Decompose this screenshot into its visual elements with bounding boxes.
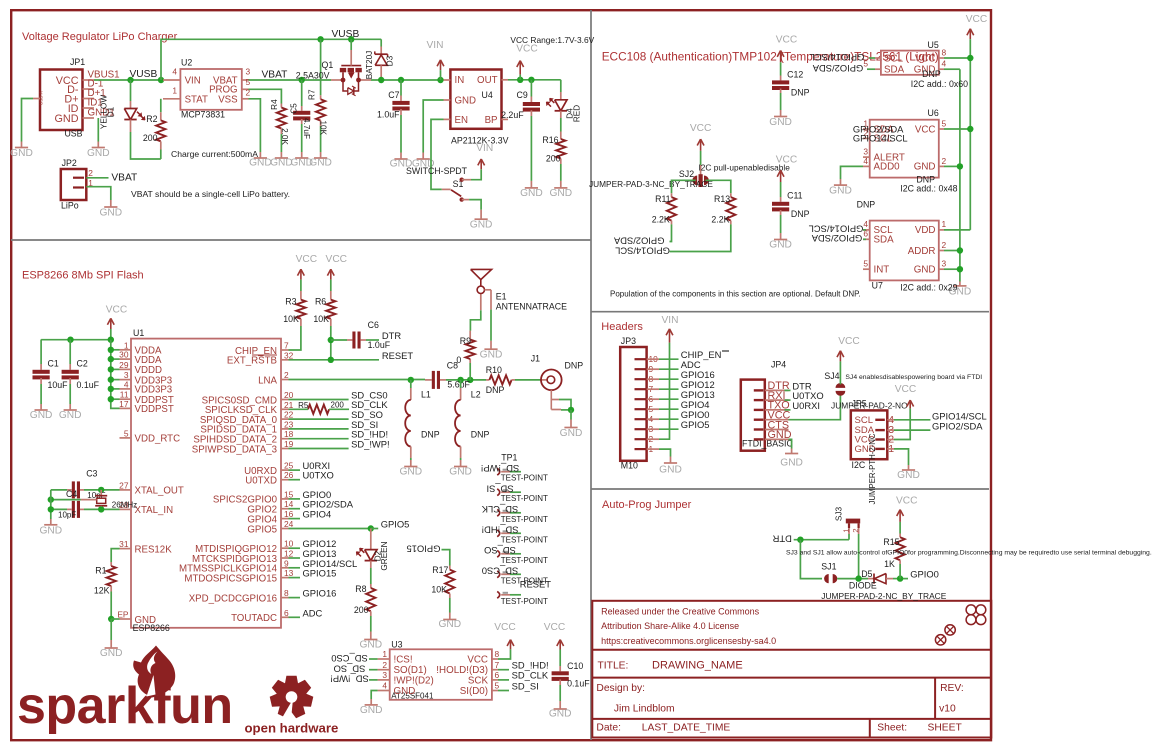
svg-text:GPIO4: GPIO4 bbox=[303, 509, 332, 520]
svg-text:TOUTADC: TOUTADC bbox=[231, 613, 277, 624]
svg-text:GPIO15: GPIO15 bbox=[407, 543, 441, 554]
test point SD_CLK bbox=[497, 509, 500, 516]
svg-text:SDA: SDA bbox=[884, 65, 905, 76]
svg-text:RES12K: RES12K bbox=[135, 544, 173, 555]
ground below R7 bbox=[314, 157, 327, 159]
svg-text:J1: J1 bbox=[531, 354, 540, 364]
test point SD_!WP! bbox=[497, 468, 500, 475]
inductor L1 DNP bbox=[410, 380, 412, 388]
svg-text:0: 0 bbox=[456, 355, 461, 365]
svg-text:VCC: VCC bbox=[915, 53, 936, 64]
svg-text:DTR: DTR bbox=[772, 534, 791, 545]
svg-text:VIN: VIN bbox=[476, 143, 493, 154]
resistor R10 DNP bbox=[486, 379, 489, 381]
svg-text:D5: D5 bbox=[861, 569, 872, 579]
svg-text:VCC: VCC bbox=[296, 254, 318, 265]
JP3 pin 5 bbox=[635, 408, 647, 410]
diode D3 BAT20J schottky bbox=[380, 39, 382, 46]
svg-text:13: 13 bbox=[284, 568, 294, 578]
svg-text:VCC: VCC bbox=[494, 622, 516, 633]
wire crystal caps to ground bus bbox=[50, 490, 52, 519]
svg-text:XPD_DCDCGPIO16: XPD_DCDCGPIO16 bbox=[189, 593, 277, 604]
svg-text:GND: GND bbox=[829, 185, 852, 196]
svg-text:VDD_RTC: VDD_RTC bbox=[135, 434, 181, 445]
ground below crystal caps bbox=[44, 524, 57, 526]
junction at D1 branch bbox=[127, 77, 133, 83]
svg-text:10K: 10K bbox=[318, 121, 327, 136]
svg-text:GND: GND bbox=[135, 615, 157, 626]
svg-text:14: 14 bbox=[284, 499, 294, 509]
svg-text:5.6pF: 5.6pF bbox=[447, 379, 470, 389]
svg-text:GND: GND bbox=[59, 410, 82, 421]
svg-text:2: 2 bbox=[942, 240, 947, 250]
svg-text:C4: C4 bbox=[66, 489, 77, 499]
section divider vertical bbox=[590, 10, 592, 740]
capacitor C9 2.2uF bbox=[530, 80, 532, 97]
svg-text:2: 2 bbox=[382, 660, 387, 670]
connector JP2 LiPo bbox=[61, 169, 87, 200]
svg-text:Charge current:500mA: Charge current:500mA bbox=[171, 149, 258, 159]
svg-text:4: 4 bbox=[172, 67, 177, 77]
wire VUSB riser and top rail bbox=[161, 39, 381, 80]
svg-text:VCC: VCC bbox=[966, 14, 988, 25]
resistor R7 10K gate pulldown bbox=[320, 39, 322, 95]
svg-text:XTAL_OUT: XTAL_OUT bbox=[135, 486, 184, 497]
solder jumper SJ1 bbox=[824, 574, 829, 583]
svg-text:2: 2 bbox=[942, 156, 947, 166]
ground below U6 ADD0 bbox=[834, 184, 847, 186]
svg-text:GND: GND bbox=[394, 686, 416, 697]
svg-text:1: 1 bbox=[382, 649, 387, 659]
JP4 pin TXO bbox=[754, 409, 764, 411]
JP3 pin 3 bbox=[635, 428, 647, 430]
svg-text:GND: GND bbox=[55, 113, 79, 125]
wire SJ1 to D5 bbox=[837, 578, 868, 580]
JP3 pin 8 bbox=[635, 378, 647, 380]
wire LNA RF net bbox=[289, 379, 426, 381]
svg-text:21: 21 bbox=[284, 400, 294, 410]
svg-text:23: 23 bbox=[284, 419, 294, 429]
test point SD_SO bbox=[497, 550, 500, 557]
svg-text:ADC: ADC bbox=[303, 607, 323, 618]
svg-text:DNP: DNP bbox=[471, 429, 490, 439]
svg-text:16: 16 bbox=[284, 509, 294, 519]
svg-text:12K: 12K bbox=[94, 586, 110, 596]
svg-text:GND: GND bbox=[30, 410, 53, 421]
ground below R1 EP bbox=[105, 647, 118, 649]
ground below L1 bbox=[404, 466, 417, 468]
svg-text:Population of the components i: Population of the components in this sec… bbox=[610, 290, 861, 299]
resistor R2 200 bbox=[160, 99, 162, 112]
svg-text:GND: GND bbox=[560, 428, 583, 439]
section divider right upper bbox=[591, 311, 989, 313]
svg-text:GND: GND bbox=[39, 526, 62, 537]
svg-text:SD_CLK: SD_CLK bbox=[512, 670, 549, 681]
open hardware gear logo bbox=[270, 676, 314, 719]
test point SD_SI bbox=[497, 489, 500, 496]
U3 VCC pin to power bbox=[498, 649, 511, 659]
svg-text:VCC: VCC bbox=[776, 154, 798, 165]
svg-text:JUMPER-PTH-2-NC: JUMPER-PTH-2-NC bbox=[868, 433, 877, 504]
ground below C1 bbox=[35, 409, 48, 411]
svg-text:SJ2: SJ2 bbox=[679, 169, 694, 179]
connector JP5 I2C bbox=[851, 410, 888, 459]
svg-text:DNP: DNP bbox=[791, 209, 810, 219]
svg-text:5: 5 bbox=[495, 681, 500, 691]
svg-text:VCC: VCC bbox=[106, 304, 128, 315]
JP4 pin CTS bbox=[754, 428, 764, 430]
svg-text:SD_!WP!: SD_!WP! bbox=[481, 463, 520, 474]
ground below C11 bbox=[774, 239, 787, 241]
ground below C10 bbox=[554, 708, 567, 710]
JP1 shield pin wire to ground bbox=[33, 98, 40, 100]
svg-text:U2: U2 bbox=[181, 58, 192, 68]
svg-text:GND: GND bbox=[549, 709, 572, 720]
svg-text:Released under the Creative Co: Released under the Creative Commons bbox=[601, 607, 760, 617]
wire RESET net bbox=[289, 359, 380, 361]
svg-text:SD_CS0: SD_CS0 bbox=[331, 653, 367, 664]
svg-text:VIN: VIN bbox=[427, 40, 444, 51]
svg-text:VIN: VIN bbox=[185, 75, 201, 86]
JP4 pin GND bbox=[754, 438, 764, 440]
wire EP pin to ground bbox=[108, 616, 114, 622]
svg-text:2.0K: 2.0K bbox=[280, 128, 289, 145]
svg-text:JP2: JP2 bbox=[62, 158, 77, 168]
svg-text:8: 8 bbox=[942, 48, 947, 58]
svg-text:SD_SI: SD_SI bbox=[512, 680, 539, 691]
svg-text:19: 19 bbox=[284, 439, 294, 449]
svg-text:GND: GND bbox=[768, 429, 792, 441]
capacitor C7 1.0uF bbox=[400, 80, 402, 96]
svg-text:R15: R15 bbox=[883, 537, 899, 547]
svg-text:GND: GND bbox=[399, 467, 422, 478]
svg-text:I2C: I2C bbox=[852, 460, 866, 470]
wire VCC bus right column bbox=[969, 39, 971, 230]
svg-text:R6: R6 bbox=[315, 297, 326, 307]
ground below JP2 bbox=[104, 206, 117, 208]
CC by-sa icon 2 bbox=[935, 635, 945, 645]
svg-text:DNP: DNP bbox=[486, 385, 505, 395]
svg-text:200: 200 bbox=[546, 153, 561, 163]
solder jumper SJ4 bbox=[836, 383, 846, 388]
svg-text:U6: U6 bbox=[928, 108, 939, 118]
JP4 pin RXI bbox=[754, 399, 764, 401]
svg-text:1K: 1K bbox=[884, 559, 895, 569]
svg-text:ESP8266 8Mb SPI Flash: ESP8266 8Mb SPI Flash bbox=[22, 270, 144, 282]
svg-text:200: 200 bbox=[143, 133, 158, 143]
svg-text:BP: BP bbox=[485, 115, 498, 126]
LED D2 green bbox=[370, 529, 372, 550]
svg-text:U3: U3 bbox=[391, 640, 402, 650]
svg-text:30: 30 bbox=[119, 350, 129, 360]
svg-text:EN: EN bbox=[455, 115, 468, 126]
svg-text:OUT: OUT bbox=[477, 75, 498, 86]
wire GPIO5 net with LED branch bbox=[289, 528, 369, 530]
CC by-sa icon 1 bbox=[945, 625, 955, 635]
svg-text:Auto-Prog Jumper: Auto-Prog Jumper bbox=[602, 499, 692, 511]
svg-text:SD_SO: SD_SO bbox=[334, 664, 366, 675]
ground below C12 bbox=[774, 116, 787, 118]
svg-text:1.0uF: 1.0uF bbox=[377, 109, 400, 119]
svg-text:3: 3 bbox=[382, 670, 387, 680]
svg-text:DNP: DNP bbox=[565, 361, 584, 371]
crystal circuit wires XTAL_OUT bbox=[84, 489, 120, 491]
JP3 pin 10 bbox=[635, 358, 647, 360]
svg-text:4: 4 bbox=[382, 681, 387, 691]
svg-text:TITLE:: TITLE: bbox=[598, 660, 629, 671]
solder jumper SJ3 bbox=[846, 519, 860, 524]
svg-text:VCC: VCC bbox=[896, 495, 918, 506]
svg-text:TEST-POINT: TEST-POINT bbox=[501, 494, 548, 503]
svg-text:GPIO2/SDA: GPIO2/SDA bbox=[811, 233, 862, 244]
ground below U2 VSS bbox=[254, 157, 267, 159]
svg-text:SD_CLK: SD_CLK bbox=[351, 399, 388, 410]
svg-text:VDD: VDD bbox=[915, 225, 936, 236]
svg-text:VBAT: VBAT bbox=[262, 69, 288, 80]
junction D3 bottom bbox=[378, 77, 384, 83]
svg-text:2.2K: 2.2K bbox=[711, 214, 729, 224]
svg-text:2: 2 bbox=[851, 528, 860, 532]
svg-text:VCC: VCC bbox=[776, 35, 798, 46]
J1 shield to ground bbox=[550, 390, 552, 399]
svg-text:!CS!: !CS! bbox=[394, 654, 413, 665]
svg-text:R17: R17 bbox=[432, 565, 448, 575]
svg-text:Headers: Headers bbox=[601, 321, 643, 333]
U2 pin 3 VBAT bbox=[242, 79, 249, 81]
svg-text:LNA: LNA bbox=[258, 375, 277, 386]
svg-text:I2C add.: 0x29: I2C add.: 0x29 bbox=[900, 283, 957, 293]
test point RESET bbox=[497, 591, 500, 598]
svg-text:SD_!HD!: SD_!HD! bbox=[482, 525, 519, 536]
svg-text:17: 17 bbox=[119, 399, 129, 409]
U2 pin 1 STAT bbox=[163, 98, 180, 100]
svg-text:Voltage Regulator LiPo Charger: Voltage Regulator LiPo Charger bbox=[22, 31, 178, 43]
wire Q1 drain to U4 IN bbox=[371, 79, 444, 81]
svg-text:ADD0: ADD0 bbox=[874, 162, 901, 173]
crystal Y1 26MHz bbox=[100, 490, 102, 496]
svg-text:SCK: SCK bbox=[468, 675, 489, 686]
svg-text:EXT_RSTB: EXT_RSTB bbox=[227, 356, 277, 367]
svg-text:SD_CS0: SD_CS0 bbox=[482, 566, 518, 577]
resistor R11 2.2K bbox=[671, 193, 673, 197]
svg-text:E1: E1 bbox=[496, 292, 507, 302]
svg-text:VCC: VCC bbox=[895, 384, 917, 395]
svg-text:USB: USB bbox=[64, 129, 82, 139]
svg-text:SI(D0): SI(D0) bbox=[460, 686, 488, 697]
svg-text:SHEET: SHEET bbox=[928, 722, 963, 733]
svg-text:Sheet:: Sheet: bbox=[877, 722, 907, 733]
section divider horizontal left bbox=[11, 239, 591, 241]
wire VBAT net U2 to Q1 bbox=[249, 79, 332, 81]
svg-text:1: 1 bbox=[172, 86, 177, 96]
wire PROG to R4 bbox=[249, 89, 282, 103]
svg-text:VDDPST: VDDPST bbox=[135, 404, 174, 415]
resistor R9 0 ohm bbox=[469, 363, 471, 380]
wire S1 upper throw to VIN bbox=[471, 169, 481, 180]
svg-text:Design by:: Design by: bbox=[596, 683, 645, 694]
svg-text:GND: GND bbox=[914, 162, 936, 173]
svg-text:GND: GND bbox=[520, 188, 543, 199]
svg-text:GND: GND bbox=[780, 458, 803, 469]
svg-text:C1: C1 bbox=[48, 359, 59, 369]
ground below JP5 bbox=[902, 469, 915, 471]
ground below right column bbox=[953, 285, 966, 287]
ground below L2 bbox=[454, 466, 467, 468]
svg-text:10pF: 10pF bbox=[58, 510, 76, 519]
svg-text:GND: GND bbox=[360, 705, 383, 716]
JP3 pin 9 bbox=[635, 368, 647, 370]
U4 BP pin stub bbox=[502, 118, 509, 120]
ground below JP4 bbox=[785, 453, 798, 455]
svg-text:GPIO5: GPIO5 bbox=[381, 518, 410, 529]
svg-text:sparkfun: sparkfun bbox=[17, 677, 233, 735]
svg-text:R10: R10 bbox=[486, 365, 502, 375]
svg-text:U7: U7 bbox=[872, 280, 883, 290]
svg-text:GPIO5: GPIO5 bbox=[247, 524, 277, 535]
U2 pin 2 VSS bbox=[242, 98, 249, 100]
svg-text:XTAL_IN: XTAL_IN bbox=[135, 505, 174, 516]
connector JP1 USB bbox=[40, 70, 83, 131]
svg-text:1.0uF: 1.0uF bbox=[368, 340, 391, 350]
ground below R16 bbox=[554, 187, 567, 189]
svg-text:Date:: Date: bbox=[596, 722, 621, 733]
svg-text:GND: GND bbox=[914, 265, 936, 276]
svg-text:GND: GND bbox=[897, 470, 920, 481]
svg-text:C11: C11 bbox=[787, 191, 803, 201]
svg-text:M10: M10 bbox=[621, 461, 638, 471]
svg-text:SD_SO: SD_SO bbox=[484, 545, 516, 556]
svg-text:VCC: VCC bbox=[544, 622, 566, 633]
JP3 pin 7 bbox=[635, 388, 647, 390]
svg-text:25: 25 bbox=[284, 461, 294, 471]
svg-text:SWITCH-SPDT: SWITCH-SPDT bbox=[406, 166, 468, 176]
svg-text:R2: R2 bbox=[146, 114, 157, 124]
svg-text:2: 2 bbox=[284, 370, 289, 380]
svg-text:SJ3 and SJ1 allow auto-control: SJ3 and SJ1 allow auto-control ofGPIO0fo… bbox=[786, 549, 1152, 556]
resistor R1 12K bbox=[111, 549, 119, 562]
svg-text:3: 3 bbox=[246, 67, 251, 77]
connector J1 coax DNP bbox=[540, 379, 542, 381]
svg-text:LAST_DATE_TIME: LAST_DATE_TIME bbox=[642, 722, 731, 733]
antenna ground branch bbox=[485, 289, 492, 291]
svg-text:U5: U5 bbox=[928, 40, 939, 50]
wire SJ2 right pad to R13 bbox=[705, 180, 730, 193]
svg-text:RESET: RESET bbox=[382, 350, 414, 361]
svg-text:I2C add.: 0x48: I2C add.: 0x48 bbox=[900, 184, 957, 194]
IC U4 AP2112K-3.3V regulator bbox=[450, 70, 501, 129]
IC U3 AT25SF041 flash bbox=[390, 649, 492, 700]
junction VUSB rail to Q1 gate bbox=[348, 36, 354, 42]
svg-text:C2: C2 bbox=[77, 359, 88, 369]
svg-text:10: 10 bbox=[284, 539, 294, 549]
svg-text:GPIO15: GPIO15 bbox=[303, 568, 337, 579]
svg-text:C12: C12 bbox=[787, 70, 803, 80]
svg-text:4: 4 bbox=[863, 156, 868, 166]
resistor R17 10K bbox=[449, 566, 451, 570]
svg-text:TEST-POINT: TEST-POINT bbox=[501, 597, 548, 606]
svg-text:GPIO2/SDA: GPIO2/SDA bbox=[812, 63, 863, 74]
svg-text:10K: 10K bbox=[431, 585, 447, 595]
svg-text:JP5: JP5 bbox=[852, 399, 867, 409]
svg-text:DNP: DNP bbox=[421, 429, 440, 439]
ground below JP1 shield bbox=[15, 147, 28, 149]
svg-text:C5: C5 bbox=[290, 103, 299, 114]
svg-text:U1: U1 bbox=[133, 328, 144, 338]
svg-text:U0RXI: U0RXI bbox=[792, 400, 820, 411]
ground below R8 bbox=[364, 639, 377, 641]
svg-text:18: 18 bbox=[284, 429, 294, 439]
JP5 VCC pin wire to power bbox=[894, 408, 910, 439]
svg-text:R3: R3 bbox=[285, 297, 296, 307]
svg-text:10uF: 10uF bbox=[48, 380, 69, 390]
svg-text:DRAWING_NAME: DRAWING_NAME bbox=[652, 659, 743, 671]
JP5 GND pin wire to ground bbox=[894, 449, 909, 465]
svg-text:GND: GND bbox=[549, 188, 572, 199]
svg-text:R7: R7 bbox=[307, 89, 316, 100]
svg-text:JP3: JP3 bbox=[621, 336, 636, 346]
svg-text:20: 20 bbox=[284, 390, 294, 400]
svg-text:GND: GND bbox=[87, 148, 110, 159]
svg-text:6: 6 bbox=[495, 670, 500, 680]
junction VUSB rail to R7 bbox=[317, 36, 323, 42]
svg-text:GND: GND bbox=[769, 117, 792, 128]
svg-text:GPIO2/SDA: GPIO2/SDA bbox=[613, 235, 664, 246]
svg-text:MTDOSPICSGPIO15: MTDOSPICSGPIO15 bbox=[184, 573, 277, 584]
svg-text:U0TXO: U0TXO bbox=[303, 470, 334, 481]
wire DTR net to SJ3 bbox=[794, 539, 849, 541]
svg-text:JP4: JP4 bbox=[771, 360, 786, 370]
svg-text:VCC: VCC bbox=[516, 43, 538, 54]
JP3 pin 6 bbox=[635, 398, 647, 400]
wire D5 to GPIO0 label bbox=[893, 578, 908, 580]
svg-text:SD_CLK: SD_CLK bbox=[481, 504, 518, 515]
JP4 pin VCC bbox=[754, 419, 764, 421]
ground below C9 bbox=[525, 187, 538, 189]
svg-text:27: 27 bbox=[119, 480, 129, 490]
overline on EXT_RSTB bbox=[252, 354, 277, 356]
capacitor C6 1.0uF DTR coupling bbox=[328, 337, 334, 343]
svg-text:https:creativecommons.orglicen: https:creativecommons.orglicensesby-sa4.… bbox=[601, 636, 776, 646]
junction VCC arrow bbox=[517, 77, 523, 83]
junction at VUSB riser bbox=[158, 77, 164, 83]
svg-text:TEST-POINT: TEST-POINT bbox=[501, 515, 548, 524]
svg-text:JP1: JP1 bbox=[70, 57, 85, 67]
JP4 GND pin wire to ground bbox=[789, 439, 792, 448]
svg-text:26MHz: 26MHz bbox=[112, 501, 137, 510]
svg-text:GPIO0: GPIO0 bbox=[910, 569, 939, 580]
LED D1 yellow bbox=[130, 80, 132, 101]
svg-text:SD_!WP!: SD_!WP! bbox=[330, 674, 369, 685]
JP3 pin 2 bbox=[635, 438, 647, 440]
svg-text:RESET: RESET bbox=[520, 578, 552, 589]
svg-text:VCC: VCC bbox=[838, 336, 860, 347]
Q1 arrow bbox=[349, 73, 354, 78]
svg-text:26: 26 bbox=[284, 470, 294, 480]
svg-text:v10: v10 bbox=[939, 704, 956, 715]
LED D4 red bbox=[560, 80, 562, 92]
svg-text:REV:: REV: bbox=[940, 683, 964, 694]
JP3 pin 1 wire to ground bbox=[659, 449, 671, 456]
svg-text:0.1uF: 0.1uF bbox=[567, 679, 590, 689]
svg-text:8: 8 bbox=[284, 588, 289, 598]
svg-text:DNP: DNP bbox=[791, 87, 810, 97]
svg-text:C9: C9 bbox=[517, 90, 528, 100]
wire SJ2 left pad to R11 bbox=[672, 180, 696, 193]
diode D5 bbox=[868, 578, 874, 580]
resistor R5 200 series bbox=[308, 405, 329, 414]
svg-text:2.2K: 2.2K bbox=[652, 214, 670, 224]
svg-text:GPIO14/SCL: GPIO14/SCL bbox=[615, 245, 670, 256]
